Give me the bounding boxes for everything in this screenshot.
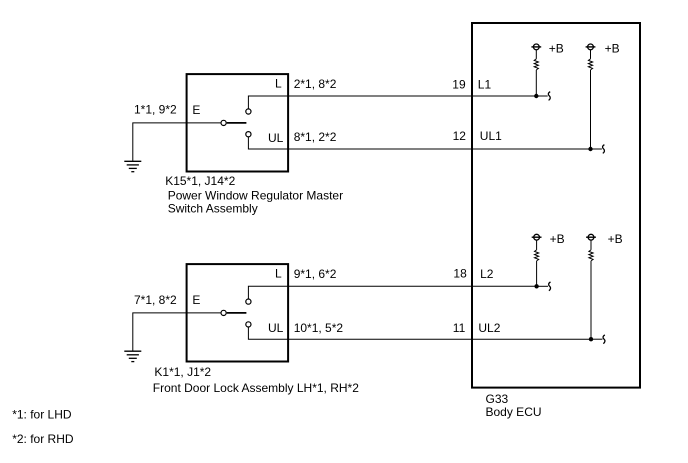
wire from +B terminal 2	[590, 50, 592, 59]
svg-text:K15*1, J14*2: K15*1, J14*2	[165, 174, 235, 188]
wire from +B terminal 4	[590, 240, 592, 250]
switch lever (door lock)	[227, 312, 247, 314]
svg-text:12: 12	[453, 129, 467, 143]
wire UL to ECU pin 12 (UL1)	[248, 137, 590, 149]
switch box K15/J14 (Power Window Regulator Master Switch Assembly)	[187, 74, 289, 171]
wire break symbol L2	[549, 282, 551, 291]
svg-text:E: E	[192, 293, 200, 307]
wire break symbol L1	[548, 92, 550, 101]
junction node UL1	[588, 147, 592, 151]
+B terminal 4	[586, 234, 596, 240]
resistor R3 (+B pull-up)	[535, 250, 539, 261]
switch contact UL (master switch)	[246, 132, 251, 137]
wire resistor R2 to node UL1	[590, 70, 592, 149]
junction node L2	[534, 284, 538, 288]
svg-text:+B: +B	[550, 232, 565, 246]
wire L to ECU pin 18 (L2)	[248, 286, 536, 299]
wire E (master switch to ground)	[133, 123, 221, 161]
ground (door lock)	[124, 351, 141, 361]
switch common terminal E (master switch)	[221, 120, 226, 125]
wire from +B terminal 3	[536, 240, 538, 250]
wire break symbol UL1	[603, 145, 605, 154]
svg-text:L1: L1	[478, 77, 492, 91]
wire L to ECU pin 19 (L1)	[248, 96, 536, 109]
wire resistor R3 to node L2	[536, 261, 538, 286]
wire break symbol UL2	[603, 335, 605, 344]
Body ECU box G33	[472, 23, 640, 388]
svg-text:L2: L2	[480, 267, 494, 281]
switch box K1/J1 (Front Door Lock Assembly)	[187, 264, 289, 361]
svg-text:G33: G33	[486, 392, 509, 406]
switch common terminal E (door lock)	[221, 310, 226, 315]
wire from +B terminal 1	[535, 50, 537, 59]
wire stub L2	[537, 285, 548, 287]
svg-text:UL: UL	[268, 131, 284, 145]
svg-text:10*1, 5*2: 10*1, 5*2	[294, 321, 344, 335]
ground (master switch)	[124, 161, 141, 171]
resistor R2 (+B pull-up)	[588, 59, 592, 70]
resistor R1 (+B pull-up)	[534, 59, 538, 70]
svg-text:7*1, 8*2: 7*1, 8*2	[134, 293, 177, 307]
svg-text:*2: for RHD: *2: for RHD	[12, 432, 74, 446]
svg-text:UL: UL	[268, 321, 284, 335]
svg-text:K1*1, J1*2: K1*1, J1*2	[154, 365, 211, 379]
svg-text:UL2: UL2	[478, 321, 500, 335]
svg-text:UL1: UL1	[480, 129, 502, 143]
wire stub UL1	[591, 148, 602, 150]
switch lever (master switch)	[227, 122, 247, 124]
resistor R4 (+B pull-up)	[589, 250, 593, 261]
switch contact UL (door lock)	[246, 322, 251, 327]
svg-text:*1: for LHD: *1: for LHD	[12, 407, 72, 421]
svg-text:Body ECU: Body ECU	[486, 405, 542, 419]
wire resistor R1 to node L1	[535, 70, 537, 96]
junction node L1	[534, 94, 538, 98]
svg-text:+B: +B	[608, 232, 623, 246]
svg-text:1*1, 9*2: 1*1, 9*2	[134, 103, 177, 117]
svg-text:18: 18	[453, 267, 467, 281]
svg-text:+B: +B	[605, 42, 620, 56]
wire E (door lock to ground)	[133, 313, 221, 351]
svg-text:Front Door Lock Assembly LH*1,: Front Door Lock Assembly LH*1, RH*2	[153, 381, 359, 395]
wire stub UL2	[591, 338, 602, 340]
svg-text:19: 19	[452, 77, 466, 91]
wire UL to ECU pin 11 (UL2)	[248, 327, 591, 339]
wire resistor R4 to node UL2	[590, 261, 592, 339]
svg-text:8*1, 2*2: 8*1, 2*2	[294, 130, 337, 144]
junction node UL2	[589, 337, 593, 341]
svg-text:11: 11	[453, 321, 466, 335]
svg-text:L: L	[275, 267, 282, 281]
+B terminal 1	[531, 44, 541, 50]
wire stub L1	[536, 95, 547, 97]
switch contact L (door lock)	[246, 299, 251, 304]
svg-text:Switch Assembly: Switch Assembly	[168, 202, 258, 216]
svg-text:9*1, 6*2: 9*1, 6*2	[294, 267, 337, 281]
svg-text:Power Window Regulator Master: Power Window Regulator Master	[168, 188, 343, 202]
svg-text:2*1, 8*2: 2*1, 8*2	[294, 77, 337, 91]
svg-text:L: L	[275, 76, 282, 90]
+B terminal 2	[586, 44, 596, 50]
switch contact L (master switch)	[246, 109, 251, 114]
svg-text:+B: +B	[549, 42, 564, 56]
svg-text:E: E	[192, 103, 200, 117]
+B terminal 3	[532, 234, 542, 240]
